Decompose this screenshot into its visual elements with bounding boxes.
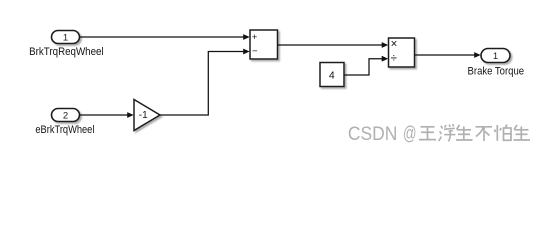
wire sum output to product x input — [278, 42, 389, 48]
outport 1 Brake Torque — [481, 49, 510, 63]
label BrkTrqReqWheel — [29, 46, 104, 58]
svg-text:4: 4 — [329, 69, 335, 81]
sum block — [250, 30, 278, 59]
watermark hanzi bu — [476, 127, 493, 141]
svg-text:1: 1 — [63, 32, 68, 43]
wire inport1 to sum + input — [80, 34, 250, 40]
svg-text:eBrkTrqWheel: eBrkTrqWheel — [35, 124, 94, 136]
svg-text:2: 2 — [63, 110, 68, 121]
gain block -1 — [134, 100, 160, 131]
svg-text:@: @ — [403, 124, 417, 145]
label eBrkTrqWheel — [35, 124, 94, 136]
watermark hanzi fu — [439, 124, 456, 141]
svg-text:×: × — [391, 39, 398, 51]
svg-text:-1: -1 — [139, 110, 148, 121]
svg-text:÷: ÷ — [391, 53, 397, 65]
wire inport2 to gain input — [80, 112, 134, 118]
wire product output to outport — [415, 52, 481, 58]
constant 4 — [320, 63, 344, 87]
svg-text:CSDN: CSDN — [348, 124, 398, 145]
watermark hanzi pa — [495, 125, 512, 141]
label Brake Torque — [468, 65, 525, 77]
svg-text:−: − — [252, 46, 258, 57]
svg-text:Brake Torque: Brake Torque — [468, 65, 525, 77]
wire gain output to sum - input — [160, 49, 250, 115]
product block (multiply divide) — [389, 38, 415, 67]
watermark hanzi sheng2 — [514, 125, 531, 140]
watermark hanzi sheng1 — [456, 125, 473, 140]
watermark CSDN @ — [348, 124, 417, 146]
svg-text:BrkTrqReqWheel: BrkTrqReqWheel — [29, 46, 104, 58]
watermark hanzi wang — [419, 127, 436, 140]
inport 2 eBrkTrqWheel — [52, 109, 80, 122]
svg-text:1: 1 — [493, 51, 498, 62]
svg-text:+: + — [252, 32, 258, 43]
wire constant to product divide input — [344, 56, 388, 75]
inport 1 BrkTrqReqWheel — [52, 31, 80, 44]
